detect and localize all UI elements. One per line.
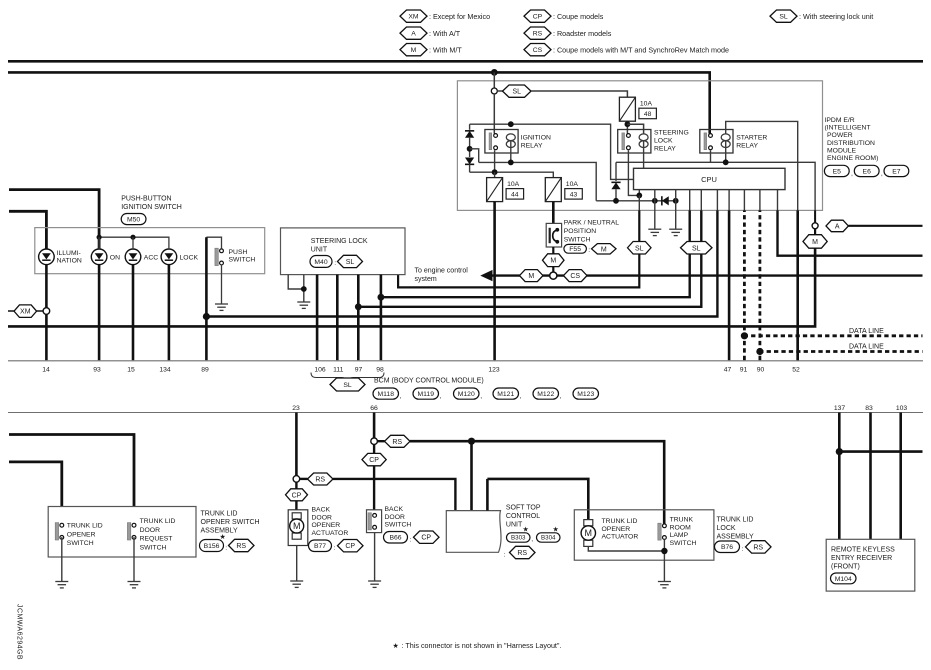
trunk lid opener switch assembly box (48, 507, 196, 558)
bulb LOCK (161, 249, 177, 265)
svg-text:ASSEMBLY: ASSEMBLY (717, 534, 755, 541)
svg-text:,: , (400, 393, 402, 400)
svg-text:TRUNK LID: TRUNK LID (602, 518, 638, 525)
node data line junction 91 (741, 332, 748, 339)
CP condition hexagon pin23 (295, 482, 297, 489)
wire pin123 from fuse44 (493, 202, 496, 361)
svg-text:M120: M120 (458, 391, 475, 398)
svg-text:STARTER: STARTER (736, 135, 767, 142)
svg-text:TRUNK LID: TRUNK LID (140, 518, 176, 525)
connector M40 : SL (310, 256, 332, 268)
wire SL branch from feed (493, 72, 495, 88)
svg-text:(INTELLIGENT: (INTELLIGENT (825, 125, 871, 132)
wire ignition relay contact feed (493, 94, 495, 134)
svg-text:106: 106 (314, 367, 326, 374)
svg-text:OPENER: OPENER (312, 522, 341, 529)
node keyless branch junction (836, 448, 843, 455)
svg-text:SWITCH: SWITCH (670, 540, 697, 547)
wire CPU out x777 to right sheet (777, 190, 779, 211)
svg-text:,: , (531, 536, 533, 543)
svg-text:66: 66 (370, 405, 378, 412)
wire CPU out x717 to push-switch bus (716, 190, 718, 211)
connector M50 (121, 214, 146, 225)
svg-text:SWITCH: SWITCH (564, 237, 591, 244)
connector F55 : M (564, 244, 587, 253)
svg-text:SWITCH: SWITCH (385, 522, 412, 529)
legend CP: Coupe models (524, 10, 551, 22)
svg-text:IPDM E/R: IPDM E/R (825, 117, 855, 124)
node open circle XM branch (43, 308, 50, 315)
wire BCM pin66 down (373, 413, 376, 439)
connector B76 : RS (715, 541, 740, 553)
svg-text:M123: M123 (577, 391, 594, 398)
wire internal bulb bus (99, 237, 169, 249)
wire actuator to ground (296, 546, 298, 581)
connector M122 (533, 388, 559, 399)
svg-text:ILLUMI-: ILLUMI- (57, 250, 81, 257)
svg-text:OPENER: OPENER (67, 531, 96, 538)
svg-text:OPENER SWITCH: OPENER SWITCH (201, 519, 260, 526)
svg-text:SL: SL (779, 14, 788, 21)
fuse 10A 48 (619, 97, 635, 121)
svg-text:SL: SL (692, 245, 701, 252)
svg-text:DOOR: DOOR (385, 514, 405, 521)
wire data line to pin90 (dashed) (759, 190, 761, 211)
ground request switch (128, 581, 141, 583)
svg-text:RELAY: RELAY (521, 143, 543, 150)
svg-text:M40: M40 (314, 259, 327, 266)
svg-text:,: , (440, 393, 442, 400)
wire back door switch to ground (374, 533, 376, 581)
back door opener actuator motor (288, 510, 308, 546)
svg-text::: : (225, 545, 227, 552)
svg-text:52: 52 (792, 367, 800, 374)
remote keyless entry receiver box (826, 539, 915, 591)
svg-text:RS: RS (315, 477, 325, 484)
trunk lid door request switch contact (127, 523, 130, 540)
connector M123 (573, 388, 599, 399)
svg-text:POSITION: POSITION (564, 228, 597, 235)
connector E5 (824, 165, 849, 176)
svg-text:DATA LINE: DATA LINE (849, 344, 884, 351)
connector E6 (854, 165, 879, 176)
svg-text:TRUNK: TRUNK (670, 517, 694, 524)
svg-text:ENGINE ROOM): ENGINE ROOM) (827, 155, 878, 162)
ground IPDM 2 (669, 228, 682, 230)
svg-text:POWER: POWER (827, 132, 853, 139)
svg-text:: Coupe models: : Coupe models (553, 12, 604, 21)
trunk room lamp switch contact (658, 523, 661, 540)
wire acc bus y162 (479, 162, 597, 200)
svg-text:137: 137 (834, 405, 846, 412)
M condition hexagon on engine line (520, 270, 544, 282)
legend XM: Except for Mexico (400, 10, 427, 22)
svg-text:(FRONT): (FRONT) (831, 564, 860, 571)
svg-text:111: 111 (333, 367, 344, 374)
svg-text:CP: CP (369, 457, 379, 464)
A condition hexagon (826, 220, 848, 232)
svg-text:M: M (411, 47, 417, 54)
node motor/lamp ground junction (661, 548, 667, 554)
wire CPU pin to ground 2 (675, 190, 677, 201)
node open circle A branch (812, 223, 818, 229)
svg-text:SWITCH: SWITCH (140, 544, 167, 551)
svg-text:,: , (560, 393, 562, 400)
back door switch box (367, 510, 382, 533)
brace for SL pins (311, 373, 384, 381)
ground push switch (215, 303, 228, 305)
fuse 10A 43 (545, 178, 561, 202)
wire push switch output to BCM pin89 (205, 237, 208, 360)
wire steering lock relay coil to CPU (643, 141, 645, 168)
ignition relay K1 (485, 130, 518, 154)
svg-text:UNIT: UNIT (506, 522, 523, 529)
svg-text:PARK / NEUTRAL: PARK / NEUTRAL (564, 219, 620, 226)
svg-text:M: M (528, 273, 534, 280)
connector M120 (454, 388, 480, 399)
soft top control unit box (446, 511, 501, 553)
svg-text:CPU: CPU (701, 175, 717, 184)
svg-text:,: , (480, 393, 482, 400)
svg-text:XM: XM (408, 14, 419, 21)
ground back door switch (368, 580, 381, 582)
svg-text:RS: RS (392, 439, 402, 446)
wire fuse43 to PNP switch (552, 202, 555, 224)
svg-text:M50: M50 (127, 216, 140, 223)
BCM lower boundary line (8, 412, 923, 414)
node open circle pin23 branch (293, 476, 300, 483)
node open circle PNP branch (550, 272, 557, 279)
svg-text:,: , (851, 171, 853, 178)
wire M hexagon to branch circle (552, 267, 554, 273)
connector B156 : RS (200, 540, 224, 552)
diode D2 (down) (465, 157, 474, 164)
svg-text:BACK: BACK (312, 507, 331, 514)
svg-text:89: 89 (201, 367, 209, 374)
wire push switch to ground (221, 265, 223, 304)
svg-text:To engine control: To engine control (415, 268, 469, 275)
svg-text:44: 44 (511, 192, 519, 199)
svg-text:B66: B66 (389, 535, 401, 542)
svg-text::: : (334, 545, 336, 552)
svg-text:CP: CP (345, 543, 355, 550)
wire starter coil bottom junction (725, 141, 727, 162)
svg-text:★: ★ (220, 533, 226, 541)
svg-text:47: 47 (724, 367, 732, 374)
wire SLU pin97 (357, 275, 360, 361)
node open circle pin66 branch (371, 438, 378, 445)
svg-text:B76: B76 (721, 544, 733, 551)
svg-text:,: , (881, 171, 883, 178)
svg-text:14: 14 (42, 367, 50, 374)
push switch contact (215, 248, 218, 265)
svg-text:SL: SL (512, 89, 521, 96)
legend SL: With steering lock unit (770, 10, 797, 22)
wire BCM pin52 redraw over data lines (796, 330, 799, 360)
wire steering-lock output / CPU pin join (638, 190, 640, 196)
wire A/M branch from relay low bus (814, 210, 816, 222)
wire ignition feed line (8, 72, 710, 133)
svg-text:ROOM: ROOM (670, 524, 691, 531)
svg-text:CS: CS (533, 47, 543, 54)
RS condition hexagon pin23 (300, 478, 308, 480)
svg-text:B156: B156 (204, 543, 220, 550)
svg-text:: Except for Mexico: : Except for Mexico (429, 12, 490, 21)
wire ON feed stub (9, 190, 99, 249)
node push-switch bus junction (203, 313, 210, 320)
wire data line to pin91 (dashed) (743, 190, 745, 211)
wire request switch to ground (133, 537, 135, 581)
wire SLU pin111 (336, 275, 339, 361)
wire starter relay coil top to pin52 route (726, 121, 798, 210)
DATA LINE bus 2 (dashed) (760, 350, 923, 353)
svg-text:SL: SL (346, 259, 355, 266)
trunk lid opener switch contact (55, 523, 58, 540)
svg-text:: With M/T: : With M/T (429, 46, 462, 55)
svg-text:CONTROL: CONTROL (506, 513, 540, 520)
svg-text:E7: E7 (892, 168, 901, 175)
svg-text:system: system (415, 276, 437, 283)
wire CPU out x689 to SLU pin98 bus (689, 190, 691, 211)
svg-text:: Roadster models: : Roadster models (553, 29, 612, 38)
wire motor bridge from RS line (487, 479, 588, 520)
svg-text:★: ★ (393, 641, 399, 650)
svg-text:A: A (835, 223, 840, 230)
park/neutral position switch box (546, 223, 561, 247)
svg-text:RS: RS (517, 550, 527, 557)
IPDM E/R module box (457, 81, 822, 211)
wire BCM pin137 down (838, 413, 841, 540)
node bus junction pin98 (378, 294, 385, 301)
fuse 10A 44 (487, 178, 503, 202)
wire starter relay contact to relay low bus (710, 150, 712, 162)
M condition hexagon (803, 235, 827, 249)
CS condition hexagon on engine line (564, 270, 588, 282)
svg-text:M: M (812, 239, 818, 246)
wire pin66 RS line to trunk room lamp switch (410, 441, 664, 524)
ground back door opener actuator (290, 580, 303, 582)
wire SL hexagon to fuse 48 (531, 91, 627, 97)
connector B77 : CP (309, 540, 332, 552)
connector M121 (493, 388, 519, 399)
wire relay low bus y162 right segment (616, 162, 815, 223)
wire soft top branch (470, 441, 473, 510)
diode D4 (left) between ground pins (662, 196, 669, 205)
svg-text:E5: E5 (833, 168, 842, 175)
svg-text:B77: B77 (314, 543, 326, 550)
steering lock unit box (281, 228, 406, 275)
svg-text:REQUEST: REQUEST (140, 536, 173, 543)
svg-text:STEERING LOCK: STEERING LOCK (311, 238, 368, 245)
svg-text:RS: RS (236, 543, 246, 550)
wire motor low side (588, 546, 664, 551)
CPU box (634, 168, 786, 189)
wire trunk opener feed stub (9, 462, 62, 507)
node open circle SL branch (491, 88, 497, 94)
svg-text:ACC: ACC (144, 254, 158, 261)
svg-text:A: A (411, 31, 416, 38)
wire keyless branch to right sheet (839, 450, 922, 453)
diode D3 (up) to CPU ground line (615, 162, 617, 181)
wire fuse48 to steering lock relay (626, 121, 628, 135)
svg-text:ACTUATOR: ACTUATOR (312, 530, 349, 537)
connector M118 (373, 388, 399, 399)
wire SLU ground pin (303, 275, 305, 302)
wire diode jog to acc bus (470, 149, 479, 163)
BCM upper boundary line (8, 360, 923, 362)
svg-text::: : (410, 537, 412, 544)
svg-text:XM: XM (20, 309, 31, 316)
svg-text::: : (742, 546, 744, 553)
svg-text:90: 90 (757, 367, 765, 374)
wire SLU pin98 (380, 275, 383, 361)
legend A: With A/T (400, 27, 427, 39)
legend M: With M/T (400, 44, 427, 56)
ground trunk opener switch (55, 581, 68, 583)
svg-text:M122: M122 (537, 391, 554, 398)
push-button ignition switch box (35, 228, 265, 274)
svg-text:RS: RS (753, 544, 763, 551)
svg-text:91: 91 (740, 367, 748, 374)
wire push switch jog (206, 237, 221, 249)
wire ILLUMINATION feed stub (9, 211, 46, 249)
wire to engine control system (480, 270, 492, 281)
svg-text:103: 103 (896, 405, 908, 412)
wire ACC bulb to pin15 (132, 265, 135, 361)
svg-text:ENTRY RECEIVER: ENTRY RECEIVER (831, 555, 892, 562)
svg-text:BCM (BODY CONTROL MODULE): BCM (BODY CONTROL MODULE) (374, 378, 484, 385)
wire steering lock signal w/ SL1 hex (398, 210, 639, 287)
wire opener switch to ground (61, 537, 63, 581)
XM stub and hexagon (8, 310, 14, 312)
svg-text:123: 123 (488, 367, 500, 374)
wire ON bulb to pin93 (98, 265, 101, 361)
trunk lid opener actuator motor (584, 520, 593, 526)
svg-text:: With A/T: : With A/T (429, 29, 461, 38)
svg-text:TRUNK LID: TRUNK LID (717, 517, 754, 524)
svg-text:M: M (550, 258, 556, 265)
svg-text:93: 93 (93, 367, 101, 374)
diode D1 (up) left of ignition relay (469, 124, 471, 130)
svg-text:SOFT TOP: SOFT TOP (506, 504, 541, 511)
wire battery power line (8, 60, 923, 63)
M condition hexagon below PNP (543, 254, 565, 267)
svg-text:M: M (293, 521, 301, 531)
wire M branch to left bus (8, 248, 815, 326)
DATA LINE bus 1 (dashed) (744, 334, 922, 337)
svg-text:PUSH: PUSH (229, 249, 248, 256)
svg-text:MODULE: MODULE (827, 147, 857, 154)
wire CPU out to BCM pin47 (728, 190, 730, 211)
svg-text:23: 23 (292, 405, 300, 412)
svg-text:TRUNK LID: TRUNK LID (201, 511, 238, 518)
wire BCM pin83 down (869, 413, 872, 540)
wire pin23 RS line to soft top unit (333, 479, 455, 511)
wire BCM pin103 down (899, 413, 902, 540)
svg-text:B304: B304 (541, 535, 556, 542)
svg-text:E6: E6 (863, 168, 872, 175)
svg-text:: Coupe models with M/T and Sy: : Coupe models with M/T and SynchroRev M… (553, 46, 729, 55)
node soft top branch junction (468, 438, 475, 445)
ground trunk lid lock assembly (658, 581, 671, 583)
svg-text::: : (334, 260, 336, 267)
trunk lid lock assembly box (574, 510, 714, 560)
svg-text:M119: M119 (418, 391, 435, 398)
wire ignition relay top bus (470, 124, 634, 179)
svg-text:M: M (601, 246, 607, 253)
steering lock relay K2 (618, 130, 651, 154)
connector E7 (884, 165, 909, 176)
svg-text:SL: SL (343, 382, 352, 389)
svg-text:DOOR: DOOR (140, 527, 160, 534)
svg-text:UNIT: UNIT (311, 247, 328, 254)
svg-text:RELAY: RELAY (736, 143, 758, 150)
SL condition hexagon (top) (497, 90, 502, 92)
legend CS: Coupe models with M/T and SynchroRev Match mode (524, 44, 551, 56)
SL condition hexagon on steering lock signal (628, 242, 652, 255)
svg-text:DOOR: DOOR (312, 514, 332, 521)
wire ignition relay contact output to fuses (494, 150, 496, 172)
svg-text:CS: CS (570, 273, 580, 280)
svg-text:CP: CP (421, 535, 431, 542)
svg-text:JCMWA6294GB: JCMWA6294GB (16, 604, 23, 660)
svg-text:M121: M121 (497, 391, 514, 398)
wire SLU ground jog (288, 275, 304, 289)
wire CPU pin to ground 1 (654, 190, 656, 201)
wire fuse supply bus y172 (470, 172, 554, 177)
svg-text:IGNITION SWITCH: IGNITION SWITCH (121, 204, 182, 211)
svg-text:DATA LINE: DATA LINE (849, 328, 884, 335)
bulb ACC (125, 249, 141, 265)
svg-text:,: , (520, 393, 522, 400)
svg-text:SL: SL (635, 245, 644, 252)
wire trunk request feed stub (9, 435, 134, 507)
wire PNP switch to M hexagon (552, 247, 554, 254)
node diode chain junction (467, 146, 473, 152)
svg-text:134: 134 (159, 367, 171, 374)
svg-text:10A: 10A (566, 181, 579, 188)
svg-text:REMOTE KEYLESS: REMOTE KEYLESS (831, 547, 895, 554)
svg-text:48: 48 (644, 111, 652, 118)
svg-text:OPENER: OPENER (602, 526, 631, 533)
wire SLU pin106 (316, 275, 319, 361)
node junction on feed line (491, 69, 498, 76)
wire lamp switch to ground (663, 539, 665, 581)
node data line junction 90 (756, 348, 763, 355)
starter relay K3 (700, 130, 733, 154)
svg-text:: With steering lock unit: : With steering lock unit (799, 12, 873, 21)
wire CPU ground line y201 (596, 200, 676, 202)
wire CPU out x701 to SLU pin97 bus (700, 190, 702, 211)
svg-text:BACK: BACK (385, 506, 404, 513)
svg-text:CP: CP (533, 14, 543, 21)
svg-text:LOCK: LOCK (180, 254, 199, 261)
connector B66 : CP (384, 532, 408, 544)
svg-text:: This connector is not shown: : This connector is not shown in "Harnes… (402, 641, 562, 650)
svg-text:98: 98 (376, 367, 384, 374)
ground steering lock unit (297, 301, 310, 303)
svg-text:83: 83 (865, 405, 873, 412)
svg-text:SWITCH: SWITCH (229, 257, 256, 264)
wire LOCK bulb to pin134 (168, 265, 171, 361)
wire A branch to right sheet (848, 225, 922, 227)
svg-text:ON: ON (110, 254, 120, 261)
CP condition hexagon pin66 (373, 445, 375, 454)
svg-text:RS: RS (533, 31, 543, 38)
SL condition hexagon (wide, two wires) (681, 242, 713, 255)
wire steering lock relay contact output (628, 150, 639, 195)
svg-text:LOCK: LOCK (717, 525, 736, 532)
